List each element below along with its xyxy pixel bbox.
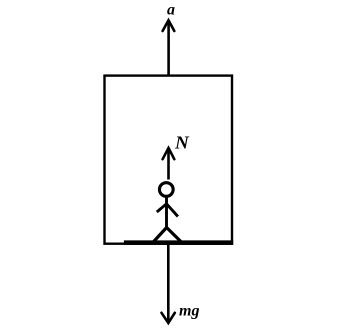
stick figure body xyxy=(165,197,168,229)
stick figure right arm xyxy=(167,204,178,217)
stick figure left leg xyxy=(153,228,167,243)
acceleration arrow shaft xyxy=(167,21,170,76)
weight arrowhead xyxy=(162,313,175,323)
floor line xyxy=(124,240,233,245)
normal force arrowhead xyxy=(163,148,175,159)
acceleration arrowhead xyxy=(163,20,175,31)
svg-text:N: N xyxy=(174,132,190,152)
normal force arrow shaft xyxy=(167,148,170,180)
stick figure left arm xyxy=(157,204,167,212)
svg-text:mg: mg xyxy=(179,303,200,320)
svg-text:a: a xyxy=(167,1,175,18)
stick figure head xyxy=(159,183,173,197)
elevator box xyxy=(105,76,233,244)
weight arrow shaft xyxy=(167,245,170,323)
stick figure right leg xyxy=(167,228,181,242)
